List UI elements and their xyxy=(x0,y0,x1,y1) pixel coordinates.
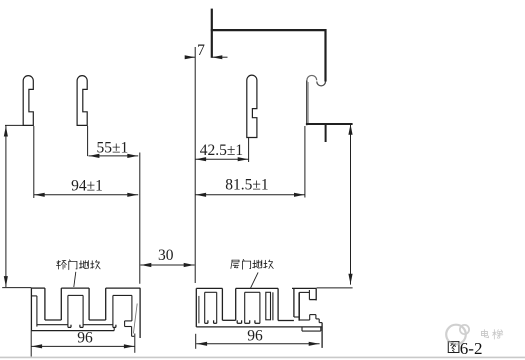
svg-text:7: 7 xyxy=(197,42,205,59)
svg-text:94±1: 94±1 xyxy=(71,178,103,195)
svg-text:96: 96 xyxy=(247,328,263,345)
svg-text:81.5±1: 81.5±1 xyxy=(225,177,268,194)
svg-text:30: 30 xyxy=(158,247,174,264)
svg-text:55±1: 55±1 xyxy=(97,140,129,157)
svg-text:96: 96 xyxy=(77,329,93,346)
svg-text:42.5±1: 42.5±1 xyxy=(200,142,243,159)
